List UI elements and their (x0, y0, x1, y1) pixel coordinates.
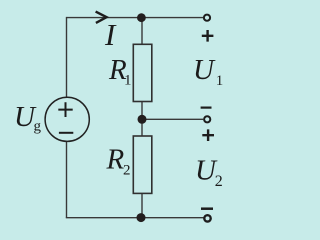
resistor R1 (133, 44, 152, 101)
junction dot top (137, 13, 146, 22)
svg-text:1: 1 (216, 73, 224, 89)
terminal top right (204, 15, 210, 21)
plus sign for U1 (202, 30, 214, 42)
junction dot middle (138, 115, 147, 124)
svg-text:R: R (106, 143, 125, 175)
wire middle horizontal to U1/U2 tap (142, 118, 203, 120)
minus sign for U1 (201, 106, 212, 108)
wire middle branch top segment (141, 18, 143, 45)
wire middle branch bottom segment (141, 193, 143, 217)
voltage source Ug circle (45, 97, 89, 141)
svg-text:2: 2 (123, 162, 131, 178)
svg-text:U: U (193, 54, 216, 86)
wire middle branch between resistors (141, 102, 143, 137)
source plus sign (58, 102, 72, 117)
terminal middle right (204, 116, 210, 122)
current arrow I (96, 12, 107, 23)
wire top horizontal (67, 17, 204, 19)
wire bottom horizontal (66, 217, 204, 219)
wire left vertical upper (66, 17, 68, 98)
svg-text:g: g (34, 119, 42, 135)
minus sign for U2 (201, 207, 213, 210)
terminal bottom right (204, 215, 210, 221)
svg-text:I: I (104, 17, 117, 52)
junction dot bottom (137, 213, 146, 222)
svg-text:1: 1 (124, 73, 132, 89)
plus sign for U2 (202, 129, 214, 141)
resistor R2 (133, 136, 152, 193)
svg-text:2: 2 (215, 173, 223, 190)
wire left vertical lower (66, 141, 68, 218)
source minus sign (59, 132, 73, 134)
